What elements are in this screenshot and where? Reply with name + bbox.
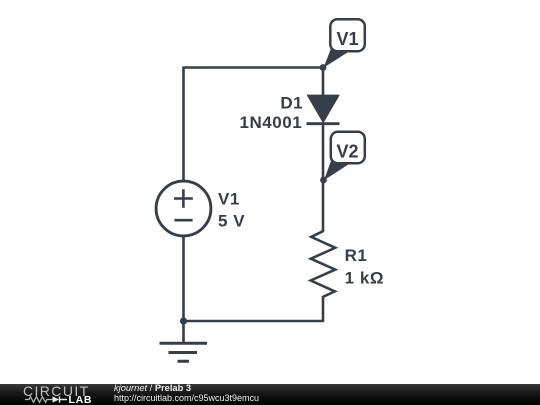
CircuitLab logo resistor-diode glyph	[25, 397, 53, 403]
wire top horizontal from source to diode branch	[184, 66, 324, 69]
resistor R1 zigzag	[311, 231, 335, 297]
wire from node V2 to resistor top	[322, 179, 325, 232]
svg-text:V2: V2	[336, 142, 358, 162]
svg-text:V1: V1	[336, 29, 358, 49]
node B junction dot middle (V2 net)	[320, 177, 327, 184]
svg-text:1 kΩ: 1 kΩ	[345, 269, 384, 288]
node C junction dot ground	[180, 317, 187, 324]
ground	[182, 321, 185, 343]
svg-text:http://circuitlab.com/c95wcu3t: http://circuitlab.com/c95wcu3t9emcu	[114, 393, 259, 403]
svg-text:R1: R1	[345, 246, 368, 265]
node A junction dot top (V1 net)	[320, 64, 327, 71]
callout box V1	[330, 19, 365, 51]
voltage source V1 circle	[156, 181, 211, 236]
callout box V2	[331, 132, 365, 163]
voltage source minus sign	[174, 219, 192, 222]
wire left vertical from top wire to V1 source	[182, 67, 185, 182]
svg-text:LAB: LAB	[69, 394, 93, 405]
diode D1 triangle	[308, 95, 339, 122]
wire from top node to diode anode	[322, 67, 325, 97]
svg-text:5 V: 5 V	[218, 212, 245, 231]
wire right vertical below resistor	[322, 296, 325, 322]
wire bottom horizontal	[184, 320, 324, 323]
svg-text:D1: D1	[280, 93, 303, 112]
svg-text:1N4001: 1N4001	[239, 113, 302, 132]
callout pointer V1	[324, 46, 350, 68]
svg-text:V1: V1	[218, 190, 240, 209]
diode D1 cathode bar	[307, 122, 340, 125]
voltage source plus sign	[174, 189, 193, 207]
svg-text:kjournet / Prelab 3: kjournet / Prelab 3	[114, 383, 191, 393]
wire from diode cathode to node V2	[322, 124, 325, 180]
wire from source bottom to ground node	[182, 236, 185, 321]
callout pointer V2	[324, 158, 349, 180]
